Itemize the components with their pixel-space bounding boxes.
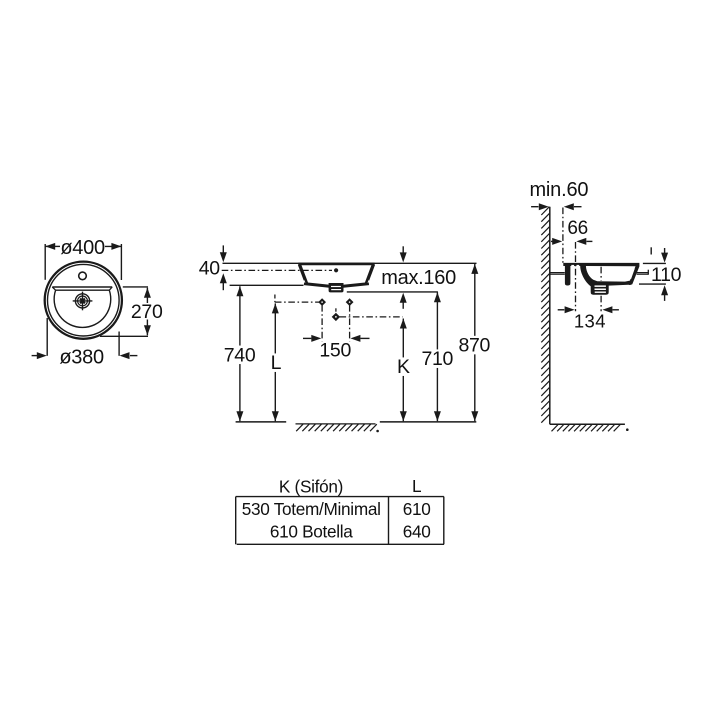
dim ø400: right arrowhead (111, 243, 121, 250)
dim 40: upper stem (222, 245, 224, 253)
svg-text:40: 40 (199, 258, 221, 280)
dim 870: down arrowhead (471, 411, 478, 421)
dim L: label (268, 353, 284, 372)
dim 710: dimension line (436, 292, 438, 421)
table: bottom rule (237, 543, 444, 545)
svg-text:K: K (397, 356, 410, 378)
dim 110: bottom extension line (639, 283, 666, 285)
side view: trap rib slit 1 (595, 285, 606, 287)
dim ø380: left extension line (46, 318, 48, 356)
dim K: dimension line (402, 319, 404, 422)
front view: countertop top line (223, 262, 477, 264)
svg-text:L: L (412, 476, 421, 496)
dim 110: up arrow stem (664, 295, 666, 301)
dim L: up arrowhead (272, 303, 279, 313)
dim max.160: up arrow stem (402, 302, 404, 309)
svg-text:610: 610 (403, 499, 431, 519)
side view: wall hatch strokes (541, 207, 549, 423)
svg-text:870: 870 (458, 335, 490, 357)
side view: rim white notch 1 (571, 265, 574, 267)
svg-text:134: 134 (574, 310, 606, 331)
front view: basin top rim edge (298, 263, 374, 266)
svg-text:ø400: ø400 (60, 237, 105, 259)
svg-text:L: L (271, 352, 282, 374)
side view: countertop right top line (637, 272, 649, 274)
side view: drain axis dash-dot upper (600, 267, 602, 281)
dim L: horizontal dash-dot to hole (275, 301, 319, 303)
dim ø400: dimension line right segment (105, 245, 122, 247)
front view: floor line right segment (380, 421, 477, 423)
front view: left fixing hole diamond (318, 298, 326, 306)
dim ø380: right extension line (118, 332, 120, 356)
svg-text:ø380: ø380 (59, 346, 104, 368)
dim min.60: left arrowhead (539, 203, 549, 210)
dim ø380: left tail line (32, 355, 37, 357)
dim 270: down arrowhead (144, 325, 151, 335)
dim 110: down arrowhead (661, 253, 668, 263)
svg-text:610 Botella: 610 Botella (270, 522, 353, 542)
front view: drain diamond stub above (335, 308, 337, 313)
dim 40: lower stem (222, 282, 224, 290)
dim 870: up arrowhead (471, 264, 478, 274)
top view: ledge left bevel (52, 287, 55, 290)
svg-text:K (Sifón): K (Sifón) (279, 477, 343, 497)
dim 150: left extension dash-dot (321, 305, 323, 341)
side view: rim white notch 2 (577, 265, 580, 268)
front view: drain stub slit 2 (331, 289, 341, 290)
side view: countertop end cap (647, 270, 649, 275)
side view: bowl interior (586, 266, 636, 282)
top view: ledge right bevel (109, 287, 112, 290)
dim ø400: right extension line (120, 244, 122, 280)
dim 110: top extension line (643, 262, 666, 264)
side view: basin body silhouette (563, 263, 639, 295)
top view: bowl outline (54, 290, 111, 327)
dim 740: label (222, 346, 257, 365)
side view: countertop left bottom line (551, 273, 565, 275)
table: right border (443, 497, 445, 545)
front view: ground hatch end dot (376, 430, 379, 433)
front view: ground hatch strokes (296, 424, 377, 431)
dim 66: left tail line (551, 240, 554, 242)
front view: basin right wall (366, 264, 373, 283)
dim 710: label (420, 349, 455, 368)
dim K: down arrowhead (400, 411, 407, 421)
dim 66: left arrowhead (552, 238, 562, 245)
dim 40: up arrowhead (220, 273, 227, 283)
dim 270: bottom extension line (100, 335, 148, 337)
svg-text:710: 710 (421, 348, 453, 370)
top view: back ledge lower edge (56, 289, 110, 291)
dim L: dimension line (274, 303, 276, 421)
dim 40: down arrowhead (220, 252, 227, 262)
table: column divider (388, 497, 390, 545)
dim 740: up arrowhead (236, 286, 243, 296)
front view: drain center diamond (332, 313, 340, 321)
front view: drain stub (329, 283, 344, 292)
front view: drain stub slit 1 (331, 286, 341, 287)
dim max.160: down arrowhead (400, 252, 407, 262)
dim 150: left tail line (303, 337, 311, 339)
dim min.60: right arrowhead (564, 203, 574, 210)
side view: right wall inner sliver (631, 269, 635, 279)
dim 150: left arrowhead (311, 335, 321, 342)
front view: basin bottom extension line (347, 291, 438, 293)
top view: inner rim circle (ø380) (48, 264, 120, 336)
dim 710: up arrowhead (434, 292, 441, 302)
front view: right knee notch (368, 280, 370, 283)
dim 270: dimension line lower (146, 320, 148, 336)
dim K: up arrowhead (400, 319, 407, 329)
dim ø380: left arrowhead (37, 352, 47, 359)
dim ø380: right arrowhead (120, 352, 130, 359)
dim 110: end cap tick (650, 247, 652, 254)
top view: back ledge upper edge (52, 286, 112, 288)
front view: centerline end dot (334, 268, 338, 272)
dim ø380: right tail line (130, 355, 137, 357)
dim 150: right tail line (360, 337, 369, 339)
side view: countertop right bottom line (637, 273, 649, 275)
svg-text:270: 270 (131, 301, 163, 323)
top view: faucet hole (79, 272, 87, 280)
front view: basin left wall (299, 264, 306, 283)
dim 710: down arrowhead (434, 411, 441, 421)
dim 740: dimension line (239, 286, 241, 421)
table: left border (235, 497, 237, 545)
svg-text:530 Totem/Minimal: 530 Totem/Minimal (242, 499, 381, 519)
dim L: down arrowhead (272, 411, 279, 421)
dim 134: left tail line (558, 309, 565, 311)
dim min.60: left tail line (531, 206, 538, 208)
dim 270: up arrowhead (144, 288, 151, 298)
dim max.160: up arrowhead (400, 293, 407, 303)
svg-text:150: 150 (319, 339, 351, 361)
front view: ground hatch top line (296, 423, 376, 425)
side view: floor hatch strokes (552, 425, 621, 432)
side view: floor hatch end dot (626, 428, 629, 431)
dim L: extension stub above (274, 295, 276, 303)
dim 740: top extension line (230, 284, 304, 286)
dim 66: right tail line (587, 240, 593, 242)
dim 134: right tail line (613, 309, 619, 311)
dim 134: right arrowhead (602, 306, 612, 313)
front view: left knee notch (303, 280, 305, 283)
svg-text:min.60: min.60 (529, 179, 588, 201)
dim 270: top extension line (123, 286, 148, 288)
dim 740: down arrowhead (236, 411, 243, 421)
front view: bowl bottom left (304, 284, 330, 287)
dim 134: left arrowhead (565, 306, 575, 313)
dim ø400: left arrowhead (45, 243, 55, 250)
dim min.60: right tail line (574, 206, 582, 208)
side view: wall line (549, 207, 551, 425)
top view: outer rim circle (ø400) (45, 262, 122, 339)
side view: floor line (550, 423, 625, 425)
svg-text:110: 110 (651, 264, 682, 286)
front view: right fixing hole diamond (346, 298, 354, 306)
dim 270: dimension line upper (146, 288, 148, 303)
dim 110: down arrow stem (664, 248, 666, 253)
front view: floor line left segment (236, 421, 287, 423)
dim 870: label (457, 336, 492, 355)
side view: faucet axis2 dash-dot (575, 242, 577, 311)
dim 150: right arrowhead (350, 335, 360, 342)
dim 150: right extension dash-dot (349, 305, 351, 341)
dim 870: dimension line (474, 264, 476, 421)
svg-text:640: 640 (403, 522, 431, 542)
dim ø400: left extension line (44, 244, 46, 280)
svg-text:66: 66 (567, 218, 588, 239)
front view: mounting centerline dash-dot (222, 269, 332, 271)
svg-text:max.160: max.160 (381, 267, 456, 289)
svg-text:740: 740 (224, 344, 256, 366)
dim max.160: down arrow stem (402, 246, 404, 253)
side view: trap rib slit 2 (595, 289, 606, 291)
front view: bowl bottom right (343, 284, 369, 287)
front view: drain axis dash-dot to K (340, 316, 403, 318)
side view: trap rib slit 3 (595, 292, 606, 293)
top view: drain symbol crosshair (73, 292, 93, 311)
dim K: label (395, 357, 412, 376)
table: top rule (236, 496, 444, 498)
dim 66: right arrowhead (576, 238, 586, 245)
dim ø400: dimension line left segment (45, 245, 60, 247)
side view: faucet axis1 dash-dot (562, 208, 564, 263)
dim 110: up arrowhead (661, 285, 668, 295)
side view: drain axis dash-dot lower (600, 296, 602, 312)
side view: countertop left top line (551, 272, 565, 274)
